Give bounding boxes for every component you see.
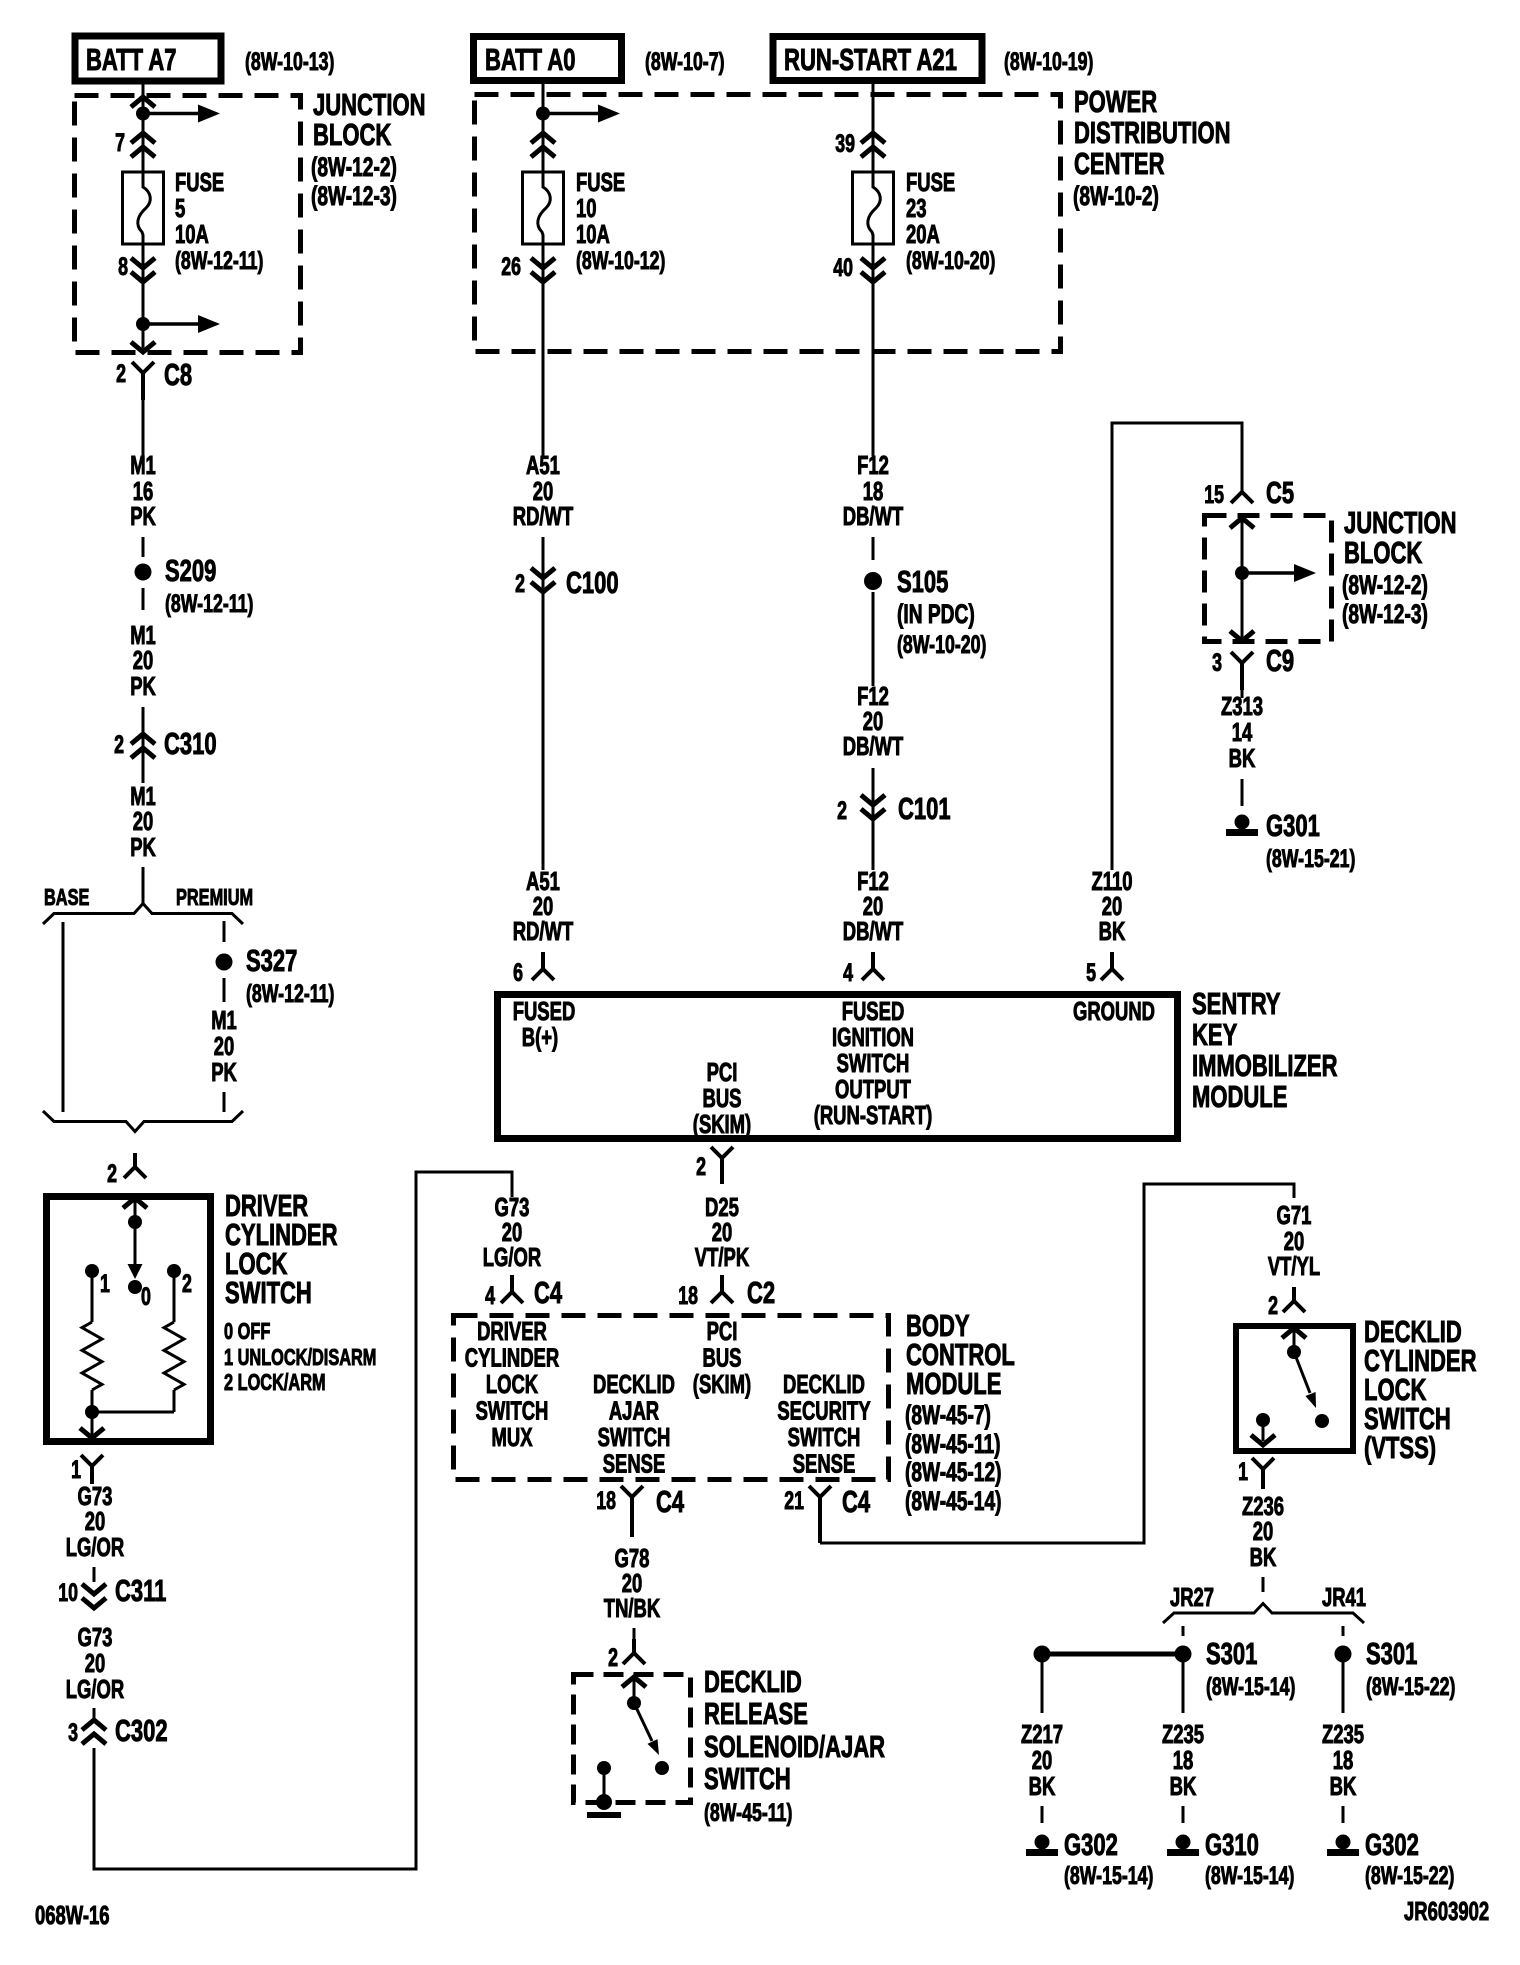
wire to C302 bbox=[93, 1708, 96, 1720]
svg-text:2: 2 bbox=[837, 797, 847, 825]
wire to wiper bbox=[134, 1198, 137, 1222]
svg-text:C310: C310 bbox=[164, 726, 217, 761]
svg-text:JR41: JR41 bbox=[1322, 1582, 1366, 1612]
svg-text:2: 2 bbox=[1268, 1292, 1278, 1320]
svg-text:(8W-12-3): (8W-12-3) bbox=[311, 181, 397, 211]
svg-text:S209: S209 bbox=[165, 553, 216, 588]
switch arm solenoid bbox=[634, 1703, 652, 1741]
svg-text:IMMOBILIZER: IMMOBILIZER bbox=[1192, 1048, 1338, 1083]
svg-text:8: 8 bbox=[118, 253, 128, 281]
svg-text:2: 2 bbox=[608, 1644, 618, 1672]
svg-text:(RUN-START): (RUN-START) bbox=[814, 1100, 933, 1130]
svg-text:068W-16: 068W-16 bbox=[35, 1900, 110, 1930]
svg-text:SWITCH: SWITCH bbox=[704, 1761, 791, 1796]
svg-text:VT/YL: VT/YL bbox=[1268, 1251, 1320, 1281]
svg-text:(8W-45-12): (8W-45-12) bbox=[905, 1457, 1002, 1487]
junction block J2 (dashed) bbox=[1205, 516, 1332, 642]
svg-text:(8W-12-2): (8W-12-2) bbox=[311, 152, 397, 182]
svg-text:(8W-12-11): (8W-12-11) bbox=[246, 980, 334, 1008]
svg-text:G302: G302 bbox=[1064, 1827, 1118, 1862]
arrow bus feed right bbox=[143, 112, 200, 116]
junction dot resistors bbox=[85, 1405, 99, 1419]
wire C101 to SKIM bbox=[872, 819, 875, 870]
wiper arm arrow bbox=[134, 1222, 137, 1264]
switch contact solenoid bbox=[655, 1761, 669, 1775]
svg-text:C311: C311 bbox=[115, 1573, 166, 1608]
arrow out of J2 bottom bbox=[1230, 631, 1254, 641]
svg-text:G301: G301 bbox=[1266, 808, 1320, 843]
svg-text:C8: C8 bbox=[164, 357, 192, 392]
svg-text:C4: C4 bbox=[534, 1275, 563, 1310]
svg-text:BK: BK bbox=[1170, 1771, 1197, 1801]
svg-text:2 LOCK/ARM: 2 LOCK/ARM bbox=[224, 1369, 326, 1395]
svg-text:AJAR: AJAR bbox=[609, 1396, 659, 1426]
splice S327 bbox=[216, 954, 233, 971]
svg-text:2: 2 bbox=[515, 570, 525, 598]
ground G310 bbox=[1176, 1835, 1191, 1850]
svg-text:VT/PK: VT/PK bbox=[695, 1242, 750, 1272]
wire Z217 stub bbox=[1041, 1806, 1044, 1823]
wire to G301 bbox=[1241, 779, 1244, 806]
svg-text:(8W-10-7): (8W-10-7) bbox=[645, 48, 725, 76]
wire below S209 bbox=[142, 588, 145, 610]
svg-text:GROUND: GROUND bbox=[1073, 996, 1155, 1026]
brace split BASE/PREMIUM bbox=[43, 904, 243, 925]
svg-text:(8W-45-11): (8W-45-11) bbox=[905, 1429, 1001, 1459]
wire Z235 left down bbox=[1182, 1662, 1185, 1713]
ground node solenoid bbox=[596, 1794, 612, 1810]
svg-text:BUS: BUS bbox=[703, 1343, 742, 1373]
node splice J2 bbox=[1235, 566, 1249, 580]
svg-text:LG/OR: LG/OR bbox=[66, 1532, 125, 1562]
svg-text:(8W-15-22): (8W-15-22) bbox=[1365, 1862, 1454, 1890]
splice S209 bbox=[135, 564, 152, 581]
svg-text:1: 1 bbox=[100, 1270, 110, 1298]
svg-text:6: 6 bbox=[513, 959, 523, 987]
wire Z217 down bbox=[1041, 1662, 1044, 1713]
wire F23 out of PDC bbox=[872, 244, 875, 456]
svg-text:0 OFF: 0 OFF bbox=[224, 1318, 270, 1344]
arrow bus feed right A0 bbox=[543, 112, 600, 116]
svg-text:(8W-15-14): (8W-15-14) bbox=[1064, 1862, 1153, 1890]
svg-text:2: 2 bbox=[182, 1270, 192, 1298]
svg-text:26: 26 bbox=[501, 253, 521, 281]
svg-text:21: 21 bbox=[784, 1487, 804, 1515]
ground G302 left bbox=[1035, 1835, 1050, 1850]
fuse F10 bbox=[523, 172, 564, 244]
arrow into J1 top bbox=[131, 97, 155, 107]
wiper pivot dot bbox=[128, 1215, 142, 1229]
svg-text:(8W-15-21): (8W-15-21) bbox=[1266, 845, 1355, 873]
svg-text:18: 18 bbox=[596, 1487, 616, 1515]
wire BATT A7 to fuse bbox=[142, 84, 145, 172]
svg-text:10A: 10A bbox=[175, 219, 209, 249]
svg-text:RELEASE: RELEASE bbox=[704, 1696, 808, 1731]
wire through J2 bbox=[1241, 518, 1244, 639]
svg-text:LOCK: LOCK bbox=[486, 1369, 538, 1399]
svg-text:DB/WT: DB/WT bbox=[843, 501, 904, 531]
wire resistor to junction bbox=[91, 1390, 94, 1438]
svg-text:20A: 20A bbox=[906, 219, 940, 249]
svg-text:1: 1 bbox=[1238, 1458, 1248, 1486]
wire A21 to fuse F23 bbox=[872, 84, 875, 172]
wire join resistors bbox=[92, 1411, 174, 1414]
VTSS pivot dot bbox=[1287, 1345, 1301, 1359]
svg-text:15: 15 bbox=[1204, 481, 1224, 509]
svg-text:DECKLID: DECKLID bbox=[704, 1664, 802, 1699]
svg-text:C101: C101 bbox=[898, 791, 951, 826]
connector chevrons pin 26 bbox=[531, 258, 555, 268]
decklid release solenoid box (dashed) bbox=[574, 1675, 691, 1803]
svg-text:C9: C9 bbox=[1266, 643, 1294, 678]
wire to C101 bbox=[872, 768, 875, 819]
svg-text:(8W-15-14): (8W-15-14) bbox=[1205, 1862, 1294, 1890]
wire PREMIUM branch bottom bbox=[223, 1092, 226, 1112]
svg-text:C4: C4 bbox=[842, 1484, 871, 1519]
svg-text:MODULE: MODULE bbox=[1192, 1079, 1287, 1114]
wire to VTSS arm bbox=[1293, 1328, 1296, 1352]
svg-text:POWER: POWER bbox=[1074, 84, 1157, 119]
wire Z235 right stub bbox=[1342, 1806, 1345, 1823]
resistor unlock bbox=[82, 1322, 102, 1390]
svg-text:(8W-45-14): (8W-45-14) bbox=[905, 1486, 1002, 1516]
svg-text:LG/OR: LG/OR bbox=[483, 1242, 542, 1272]
svg-text:JR27: JR27 bbox=[1170, 1582, 1214, 1612]
svg-text:CYLINDER: CYLINDER bbox=[465, 1343, 560, 1373]
contact 0 bbox=[128, 1280, 142, 1294]
svg-text:SOLENOID/AJAR: SOLENOID/AJAR bbox=[704, 1729, 885, 1764]
arrow into solenoid box bbox=[622, 1677, 646, 1687]
wire JR27 stub bbox=[1182, 1626, 1185, 1636]
brace split JR27/JR41 bbox=[1163, 1604, 1364, 1624]
wire to S105 bbox=[872, 537, 875, 560]
VTSS switch arm bbox=[1294, 1352, 1310, 1393]
ground contact dot bbox=[597, 1761, 611, 1775]
svg-text:(8W-12-11): (8W-12-11) bbox=[175, 247, 263, 275]
svg-text:S301: S301 bbox=[1366, 1636, 1417, 1671]
arrow out of J1 bottom bbox=[131, 342, 155, 352]
svg-text:G302: G302 bbox=[1365, 1827, 1419, 1862]
svg-text:SENSE: SENSE bbox=[603, 1449, 666, 1479]
svg-text:39: 39 bbox=[835, 130, 855, 158]
svg-text:(8W-12-2): (8W-12-2) bbox=[1342, 570, 1428, 600]
svg-text:G310: G310 bbox=[1205, 1827, 1259, 1862]
svg-text:SECURITY: SECURITY bbox=[777, 1396, 870, 1426]
wire below S327 bbox=[223, 978, 226, 1002]
wire to decklid solenoid bbox=[633, 1628, 636, 1642]
connector chevrons A0 bbox=[531, 133, 555, 143]
svg-text:JR603902: JR603902 bbox=[1404, 1896, 1489, 1926]
switch pivot dot solenoid bbox=[627, 1696, 641, 1710]
svg-text:SWITCH: SWITCH bbox=[598, 1422, 671, 1452]
VTSS output contact bbox=[1256, 1413, 1270, 1427]
wire below S105 bbox=[872, 592, 875, 686]
svg-text:RD/WT: RD/WT bbox=[513, 916, 574, 946]
node splice top J1 bbox=[136, 107, 150, 121]
wire Z235 left stub bbox=[1182, 1806, 1185, 1823]
svg-text:18: 18 bbox=[678, 1282, 698, 1310]
node BATT A7 feed box bbox=[75, 36, 221, 81]
arrow into VTSS top bbox=[1282, 1328, 1306, 1338]
svg-text:PK: PK bbox=[130, 671, 156, 701]
svg-text:DRIVER: DRIVER bbox=[477, 1316, 547, 1346]
svg-text:BATT A0: BATT A0 bbox=[485, 42, 576, 77]
svg-text:PK: PK bbox=[130, 501, 156, 531]
connector chevrons pin 8 bbox=[131, 258, 155, 268]
arrow bus feed right 2 bbox=[143, 322, 200, 326]
svg-text:(SKIM): (SKIM) bbox=[693, 1369, 751, 1399]
svg-text:LG/OR: LG/OR bbox=[66, 1674, 125, 1704]
svg-text:SWITCH: SWITCH bbox=[788, 1422, 861, 1452]
svg-text:(VTSS): (VTSS) bbox=[1364, 1430, 1436, 1465]
svg-text:S301: S301 bbox=[1206, 1636, 1257, 1671]
ground G302 right bbox=[1336, 1835, 1351, 1850]
fuse F5 bbox=[123, 172, 164, 244]
arrow into switch top bbox=[123, 1198, 147, 1208]
ground G301 bbox=[1235, 815, 1250, 830]
wire Z235 right down bbox=[1342, 1662, 1345, 1713]
driver cylinder lock switch box bbox=[47, 1197, 211, 1442]
decklid cylinder lock switch box bbox=[1236, 1326, 1353, 1451]
svg-text:BLOCK: BLOCK bbox=[313, 117, 392, 152]
svg-text:1 UNLOCK/DISARM: 1 UNLOCK/DISARM bbox=[224, 1344, 376, 1370]
svg-text:MODULE: MODULE bbox=[906, 1366, 1001, 1401]
node RUN-START A21 feed box bbox=[773, 37, 982, 81]
svg-text:C100: C100 bbox=[566, 565, 619, 600]
wire to C311 bbox=[93, 1567, 96, 1582]
svg-text:(IN PDC): (IN PDC) bbox=[897, 599, 975, 629]
svg-text:(8W-12-3): (8W-12-3) bbox=[1342, 599, 1428, 629]
svg-text:3: 3 bbox=[1212, 649, 1222, 677]
contact 1 bbox=[85, 1264, 99, 1278]
svg-text:1: 1 bbox=[71, 1456, 81, 1484]
wire BCM pin21 to VTSS bbox=[820, 1184, 1294, 1543]
svg-text:SWITCH: SWITCH bbox=[476, 1396, 549, 1426]
svg-text:7: 7 bbox=[115, 129, 125, 157]
svg-text:DB/WT: DB/WT bbox=[843, 731, 904, 761]
svg-text:(8W-10-13): (8W-10-13) bbox=[245, 48, 334, 76]
wire BASE branch bbox=[62, 922, 65, 1112]
svg-text:(8W-15-14): (8W-15-14) bbox=[1206, 1673, 1295, 1701]
wire to brace bbox=[142, 867, 145, 903]
svg-text:PK: PK bbox=[130, 832, 156, 862]
svg-text:C302: C302 bbox=[115, 1713, 168, 1748]
svg-text:S327: S327 bbox=[246, 943, 297, 978]
svg-text:(8W-10-12): (8W-10-12) bbox=[576, 247, 665, 275]
svg-text:(8W-12-11): (8W-12-11) bbox=[165, 590, 253, 618]
wire SKIM pin5 up and over to C5 bbox=[1112, 423, 1242, 870]
wire C8 down bbox=[142, 400, 145, 456]
svg-text:B(+): B(+) bbox=[522, 1022, 558, 1052]
svg-text:RD/WT: RD/WT bbox=[513, 501, 574, 531]
wire C302 to BCM C4 pin4 bbox=[94, 1172, 512, 1869]
arrow out of VTSS bottom bbox=[1251, 1435, 1275, 1445]
svg-text:2: 2 bbox=[107, 1160, 117, 1188]
svg-text:SENTRY: SENTRY bbox=[1192, 986, 1281, 1021]
wire to S209 bbox=[142, 537, 145, 557]
svg-text:DECKLID: DECKLID bbox=[593, 1369, 675, 1399]
svg-text:2: 2 bbox=[116, 360, 126, 388]
fuse F23 bbox=[853, 172, 894, 244]
body control module box (dashed) bbox=[454, 1316, 889, 1480]
svg-text:BASE: BASE bbox=[44, 884, 89, 910]
wire BATT A0 to fuse F10 bbox=[542, 84, 545, 172]
svg-text:PCI: PCI bbox=[707, 1316, 738, 1346]
wire to JR brace bbox=[1262, 1577, 1265, 1592]
sentry key immobilizer module box bbox=[498, 995, 1178, 1139]
svg-text:BK: BK bbox=[1099, 916, 1126, 946]
svg-text:(8W-10-20): (8W-10-20) bbox=[897, 631, 986, 659]
svg-text:(8W-15-22): (8W-15-22) bbox=[1366, 1673, 1455, 1701]
svg-text:S105: S105 bbox=[897, 564, 948, 599]
wire S301 to Z217 tap bbox=[1049, 1652, 1176, 1657]
contact 2 bbox=[167, 1264, 181, 1278]
svg-text:(8W-45-11): (8W-45-11) bbox=[704, 1799, 792, 1827]
brace merge to switch bbox=[43, 1111, 243, 1132]
wire C100 to SKIM bbox=[542, 592, 545, 870]
wire contact1 to resistor bbox=[91, 1271, 94, 1322]
svg-text:BATT A7: BATT A7 bbox=[86, 42, 177, 77]
svg-text:SWITCH: SWITCH bbox=[225, 1275, 312, 1310]
wire PREMIUM branch top bbox=[223, 921, 226, 942]
wire JR41 stub bbox=[1342, 1626, 1345, 1636]
svg-text:4: 4 bbox=[485, 1282, 495, 1310]
svg-text:5: 5 bbox=[1086, 959, 1096, 987]
svg-text:(SKIM): (SKIM) bbox=[693, 1109, 751, 1139]
svg-text:BK: BK bbox=[1229, 743, 1256, 773]
wire resistor2 down bbox=[173, 1390, 176, 1412]
svg-text:(8W-10-19): (8W-10-19) bbox=[1004, 48, 1093, 76]
connector chevrons pin 40 bbox=[861, 258, 885, 268]
connector chevrons pin 7 bbox=[131, 133, 155, 143]
arrow into J2 top bbox=[1230, 518, 1254, 528]
svg-text:2: 2 bbox=[696, 1153, 706, 1181]
junction block J1 (dashed) bbox=[75, 96, 301, 353]
svg-text:BLOCK: BLOCK bbox=[1344, 535, 1423, 570]
svg-text:(8W-10-2): (8W-10-2) bbox=[1073, 181, 1159, 211]
svg-text:(8W-10-20): (8W-10-20) bbox=[906, 247, 995, 275]
wire contact2 to resistor bbox=[173, 1271, 176, 1322]
wire to C100 bbox=[542, 537, 545, 592]
connector chevrons pin 39 bbox=[861, 133, 885, 143]
svg-text:3: 3 bbox=[68, 1719, 78, 1747]
wire contact to ground bbox=[603, 1768, 606, 1800]
svg-text:C2: C2 bbox=[747, 1275, 775, 1310]
svg-text:TN/BK: TN/BK bbox=[604, 1593, 661, 1623]
svg-text:40: 40 bbox=[833, 254, 853, 282]
svg-text:DISTRIBUTION: DISTRIBUTION bbox=[1074, 115, 1231, 150]
svg-text:DECKLID: DECKLID bbox=[783, 1369, 865, 1399]
splice S105 bbox=[864, 572, 882, 590]
svg-text:BK: BK bbox=[1029, 1771, 1056, 1801]
svg-text:(8W-45-7): (8W-45-7) bbox=[905, 1400, 991, 1430]
svg-text:PK: PK bbox=[211, 1057, 237, 1087]
splice S301 left bbox=[1175, 1646, 1192, 1663]
resistor lock bbox=[164, 1322, 184, 1390]
wire F10 out of PDC bbox=[542, 244, 545, 456]
node Z217 tap bbox=[1034, 1646, 1051, 1663]
wire C9 down bbox=[1241, 690, 1244, 698]
svg-text:SENSE: SENSE bbox=[793, 1449, 856, 1479]
svg-text:2: 2 bbox=[114, 731, 124, 759]
svg-text:PREMIUM: PREMIUM bbox=[176, 884, 253, 910]
node splice bottom J1 bbox=[136, 317, 150, 331]
node splice A0 bbox=[536, 107, 550, 121]
svg-text:BK: BK bbox=[1250, 1542, 1277, 1572]
svg-text:C5: C5 bbox=[1266, 475, 1294, 510]
wire VTSS contact down bbox=[1262, 1420, 1265, 1441]
arrow bus feed right J2 bbox=[1242, 571, 1296, 575]
node BATT A0 feed box bbox=[474, 37, 622, 81]
arrow out of switch bottom bbox=[80, 1428, 104, 1438]
svg-text:10: 10 bbox=[58, 1579, 78, 1607]
power distribution center box (dashed) bbox=[475, 95, 1061, 352]
svg-text:DB/WT: DB/WT bbox=[843, 916, 904, 946]
svg-text:CENTER: CENTER bbox=[1074, 146, 1165, 181]
svg-text:C4: C4 bbox=[656, 1484, 685, 1519]
wire fuse F5 to J1 bottom bbox=[142, 244, 145, 350]
svg-text:KEY: KEY bbox=[1192, 1017, 1238, 1052]
wire to C310 bbox=[142, 707, 145, 783]
svg-text:10A: 10A bbox=[576, 219, 610, 249]
svg-text:BK: BK bbox=[1330, 1771, 1357, 1801]
svg-text:4: 4 bbox=[843, 959, 853, 987]
VTSS contact dot bbox=[1315, 1414, 1329, 1428]
svg-text:MUX: MUX bbox=[492, 1422, 533, 1452]
wire to switch arm bbox=[633, 1677, 636, 1703]
svg-text:RUN-START A21: RUN-START A21 bbox=[784, 42, 957, 77]
splice S301 right bbox=[1335, 1646, 1352, 1663]
svg-text:0: 0 bbox=[141, 1283, 151, 1311]
